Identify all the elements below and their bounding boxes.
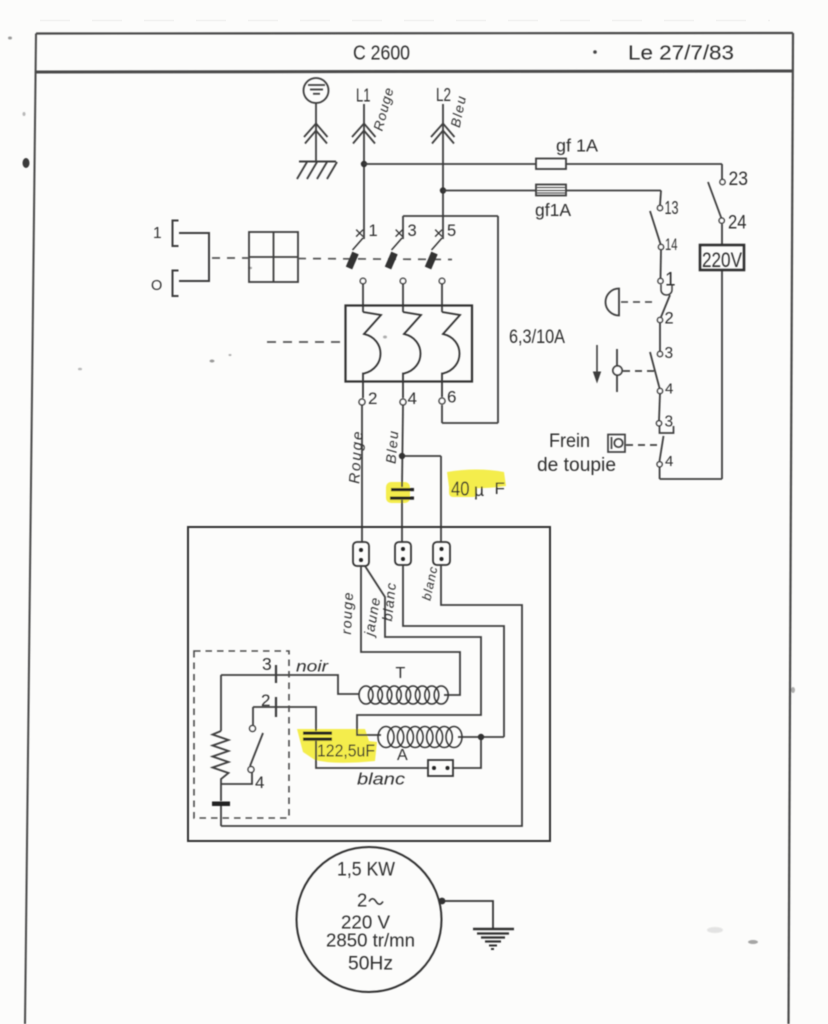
- svg-text:O: O: [151, 278, 162, 294]
- svg-text:122,5uF: 122,5uF: [317, 741, 375, 761]
- svg-text:de toupie: de toupie: [537, 455, 616, 476]
- svg-text:T: T: [396, 665, 406, 682]
- svg-text:1: 1: [665, 270, 676, 291]
- svg-text:2: 2: [261, 691, 270, 710]
- svg-text:2: 2: [665, 310, 674, 328]
- svg-text:4: 4: [665, 453, 673, 470]
- svg-text:µ: µ: [474, 480, 484, 500]
- svg-text:24: 24: [728, 212, 747, 234]
- svg-text:Le 27/7/83: Le 27/7/83: [628, 43, 734, 65]
- svg-text:4: 4: [665, 381, 673, 398]
- svg-text:A: A: [397, 747, 408, 764]
- svg-text:1: 1: [153, 225, 162, 242]
- svg-text:L1: L1: [356, 85, 371, 106]
- svg-text:220V: 220V: [702, 249, 742, 272]
- svg-text:4: 4: [408, 389, 417, 408]
- svg-text:40: 40: [451, 478, 470, 501]
- svg-text:3: 3: [408, 222, 417, 240]
- svg-text:×: ×: [434, 223, 444, 243]
- svg-text:1: 1: [369, 222, 378, 240]
- svg-text:220 V: 220 V: [341, 912, 391, 933]
- svg-text:3: 3: [262, 654, 272, 674]
- svg-text:4: 4: [255, 773, 264, 792]
- svg-text:6,3/10A: 6,3/10A: [509, 327, 565, 348]
- svg-text:L2: L2: [436, 84, 451, 105]
- svg-text:50Hz: 50Hz: [348, 953, 393, 975]
- svg-text:14: 14: [665, 236, 678, 254]
- svg-text:1,5 KW: 1,5 KW: [337, 859, 396, 881]
- svg-text:2: 2: [368, 389, 377, 408]
- svg-text:Frein: Frein: [549, 430, 590, 452]
- svg-text:×: ×: [394, 223, 404, 243]
- svg-text:rouge: rouge: [338, 591, 356, 635]
- svg-text:5: 5: [447, 222, 456, 240]
- svg-text:C 2600: C 2600: [353, 43, 410, 65]
- svg-text:gf 1A: gf 1A: [556, 136, 598, 156]
- svg-text:noir: noir: [296, 659, 329, 676]
- svg-text:3: 3: [665, 345, 674, 362]
- svg-text:F: F: [495, 479, 505, 498]
- svg-text:2850 tr/mn: 2850 tr/mn: [326, 931, 415, 951]
- svg-text:3: 3: [665, 414, 674, 431]
- svg-text:blanc: blanc: [357, 770, 406, 789]
- svg-text:2: 2: [357, 890, 367, 911]
- svg-text:Bleu: Bleu: [383, 429, 402, 464]
- svg-text:×: ×: [355, 223, 365, 243]
- svg-text:23: 23: [729, 168, 749, 190]
- svg-text:6: 6: [447, 388, 456, 407]
- svg-text:gf1A: gf1A: [535, 200, 571, 220]
- svg-text:13: 13: [665, 198, 679, 218]
